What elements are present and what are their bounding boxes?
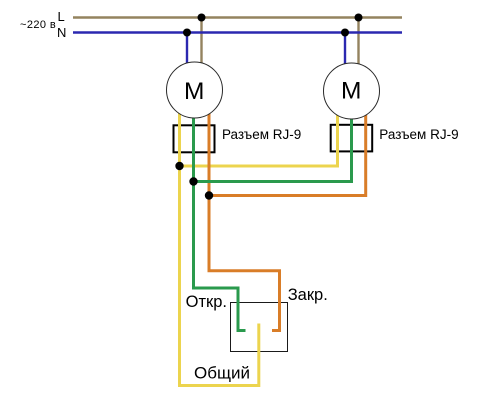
svg-text:M: M bbox=[184, 78, 204, 105]
svg-text:~220 в: ~220 в bbox=[20, 19, 56, 31]
svg-text:L: L bbox=[58, 9, 65, 24]
svg-text:Разъем RJ-9: Разъем RJ-9 bbox=[379, 127, 458, 142]
svg-text:Разъем RJ-9: Разъем RJ-9 bbox=[222, 127, 301, 142]
svg-text:Откр.: Откр. bbox=[186, 293, 227, 311]
svg-text:Закр.: Закр. bbox=[288, 286, 328, 304]
svg-text:N: N bbox=[57, 25, 66, 40]
svg-text:M: M bbox=[341, 78, 361, 105]
svg-text:Общий: Общий bbox=[194, 364, 250, 383]
